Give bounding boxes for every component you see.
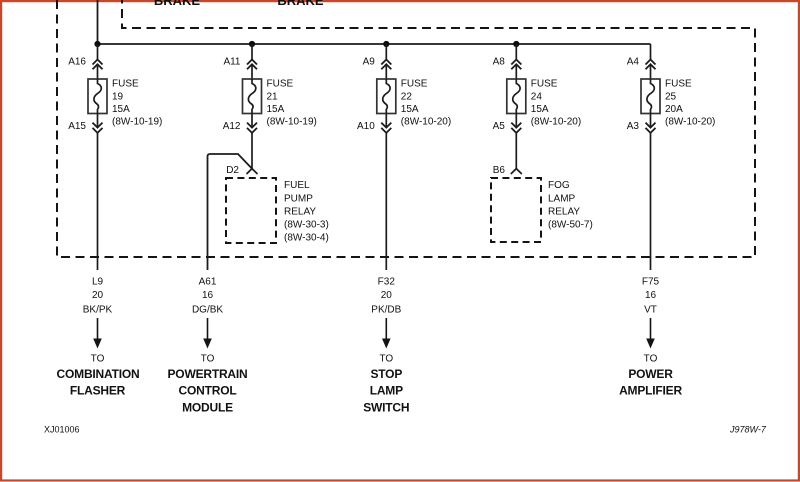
svg-text:F32: F32 (378, 277, 396, 288)
wire: arrow to power amplifier (646, 318, 655, 349)
svg-text:(8W-50-7): (8W-50-7) (548, 220, 593, 231)
svg-text:PUMP: PUMP (284, 193, 313, 204)
wire: connector A15 down to circuit L9 (97, 133, 99, 270)
wire: feed from above into bus node (97, 0, 99, 44)
svg-text:MODULE: MODULE (182, 400, 233, 414)
wire: horizontal bus (98, 43, 651, 45)
connector A5 (double chevron down) (511, 123, 521, 133)
svg-text:CONTROL: CONTROL (179, 384, 237, 398)
svg-text:AMPLIFIER: AMPLIFIER (619, 384, 682, 398)
svg-text:(8W-30-4): (8W-30-4) (284, 233, 329, 244)
svg-text:25: 25 (665, 91, 677, 102)
svg-text:F75: F75 (642, 277, 660, 288)
svg-text:15A: 15A (267, 104, 285, 115)
svg-text:A12: A12 (223, 121, 241, 132)
svg-text:TO: TO (644, 354, 658, 365)
terminal D2 (caret at relay) (247, 169, 258, 174)
wire: fuse 19 to connector A15 (97, 114, 99, 128)
value label FUSE 19 15A (8W-10-19) (112, 79, 162, 128)
svg-text:STOP: STOP (370, 367, 402, 381)
svg-text:22: 22 (401, 91, 413, 102)
svg-text:BRAKE: BRAKE (277, 0, 324, 8)
svg-text:LAMP: LAMP (370, 384, 403, 398)
net label F32 20 PK/DB (371, 277, 401, 316)
wire: fuse 25 to connector A3 (650, 114, 652, 128)
svg-text:J978W-7: J978W-7 (729, 425, 767, 435)
svg-text:POWERTRAIN: POWERTRAIN (168, 367, 248, 381)
svg-text:20: 20 (92, 290, 104, 301)
svg-text:FUEL: FUEL (284, 180, 310, 191)
svg-text:19: 19 (112, 91, 124, 102)
svg-text:TO: TO (201, 354, 215, 365)
dashed boundary: junction block / power distribution center (57, 0, 755, 257)
wire: connector A9 to fuse 22 (385, 64, 387, 79)
svg-text:TO: TO (91, 354, 105, 365)
wire: fuse 22 to connector A10 (385, 114, 387, 128)
svg-text:16: 16 (645, 290, 657, 301)
svg-text:(8W-10-20): (8W-10-20) (665, 117, 715, 128)
value label FUSE 25 20A (8W-10-20) (665, 79, 715, 128)
wire: bus to connector A8 (515, 44, 517, 60)
svg-text:COMBINATION: COMBINATION (57, 367, 140, 381)
net label L9 20 BK/PK (83, 277, 113, 316)
terminal B6 (caret at relay) (511, 169, 522, 174)
relay K1 FUEL PUMP RELAY (dashed outline) (226, 178, 276, 243)
label FUEL PUMP RELAY (8W-30-3) (8W-30-4) (284, 180, 329, 243)
wire: tap from D2 to PCM feed (diagonal, horizontal, down) (208, 154, 253, 270)
svg-text:A4: A4 (627, 57, 640, 68)
svg-text:A61: A61 (199, 277, 217, 288)
svg-text:FUSE: FUSE (531, 79, 558, 90)
net label A61 16 DG/BK (192, 277, 223, 316)
fuse F25 (641, 79, 660, 114)
label TO POWERTRAIN CONTROL MODULE (168, 354, 248, 415)
svg-text:20: 20 (381, 290, 393, 301)
wire: connector A11 to fuse 21 (251, 64, 253, 79)
connector A9 (double chevron up) (381, 60, 391, 70)
svg-text:A10: A10 (357, 121, 375, 132)
connector A12 (double chevron down) (247, 123, 257, 133)
label TO POWER AMPLIFIER (619, 354, 682, 398)
node at fuse 19 tap (94, 41, 100, 47)
wire: connector A10 down to circuit F32 (385, 133, 387, 270)
svg-text:FUSE: FUSE (665, 79, 692, 90)
svg-text:15A: 15A (531, 104, 549, 115)
wire: connector A4 to fuse 25 (650, 64, 652, 79)
wire: connector A16 to fuse 19 (97, 64, 99, 79)
svg-text:FUSE: FUSE (401, 79, 428, 90)
node at fuse 24 tap (513, 41, 519, 47)
net label F75 16 VT (642, 277, 660, 316)
svg-text:A16: A16 (68, 57, 86, 68)
svg-text:VT: VT (644, 305, 657, 316)
label FOG LAMP RELAY (8W-50-7) (548, 180, 593, 230)
fuse F22 (377, 79, 396, 114)
svg-text:PK/DB: PK/DB (371, 305, 401, 316)
svg-text:A8: A8 (493, 57, 506, 68)
svg-text:DG/BK: DG/BK (192, 305, 223, 316)
relay K2 FOG LAMP RELAY (dashed outline) (491, 178, 541, 242)
svg-text:POWER: POWER (628, 367, 673, 381)
connector A16 (double chevron up) (93, 60, 103, 70)
svg-text:A9: A9 (363, 57, 376, 68)
wire: connector A5 to relay terminal B6 (515, 133, 517, 169)
svg-text:B6: B6 (493, 165, 506, 176)
svg-text:RELAY: RELAY (284, 206, 316, 217)
svg-text:20A: 20A (665, 104, 683, 115)
label TO COMBINATION FLASHER (57, 354, 140, 398)
wire: arrow to stop lamp switch (382, 318, 391, 349)
wire: bus to connector A11 (251, 44, 253, 60)
wire: fuse 24 to connector A5 (515, 114, 517, 128)
connector A11 (double chevron up) (247, 60, 257, 70)
wire: connector A8 to fuse 24 (515, 64, 517, 79)
connector A15 (double chevron down) (93, 123, 103, 133)
svg-text:A5: A5 (493, 121, 506, 132)
label TO STOP LAMP SWITCH (363, 354, 409, 415)
svg-text:A3: A3 (627, 121, 640, 132)
value label FUSE 22 15A (8W-10-20) (401, 79, 451, 128)
svg-text:21: 21 (267, 91, 279, 102)
wire: arrow to powertrain control module (203, 318, 212, 349)
value label FUSE 24 15A (8W-10-20) (531, 79, 581, 128)
svg-text:FOG: FOG (548, 180, 570, 191)
fuse F24 (507, 79, 526, 114)
svg-text:16: 16 (202, 290, 214, 301)
wire: bus to connector A9 (385, 44, 387, 60)
wire: arrow to combination flasher (93, 318, 102, 349)
node at fuse 22 tap (383, 41, 389, 47)
svg-text:L9: L9 (92, 277, 104, 288)
svg-text:TO: TO (379, 354, 393, 365)
svg-text:(8W-10-19): (8W-10-19) (112, 117, 162, 128)
svg-text:24: 24 (531, 91, 543, 102)
svg-text:(8W-10-20): (8W-10-20) (401, 117, 451, 128)
svg-text:A11: A11 (223, 57, 240, 68)
value label FUSE 21 15A (8W-10-19) (267, 79, 317, 128)
svg-text:FUSE: FUSE (112, 79, 139, 90)
svg-text:FLASHER: FLASHER (70, 384, 126, 398)
connector A4 (double chevron up) (646, 60, 656, 70)
fuse F21 (243, 79, 262, 114)
svg-text:(8W-10-19): (8W-10-19) (267, 117, 317, 128)
svg-text:SWITCH: SWITCH (363, 400, 409, 414)
wire: fuse 21 to connector A12 (251, 114, 253, 128)
svg-text:RELAY: RELAY (548, 206, 580, 217)
svg-text:15A: 15A (112, 104, 130, 115)
connector A3 (double chevron down) (646, 123, 656, 133)
svg-text:BRAKE: BRAKE (154, 0, 201, 8)
fuse F19 (88, 79, 107, 114)
svg-text:15A: 15A (401, 104, 419, 115)
svg-text:(8W-30-3): (8W-30-3) (284, 220, 329, 231)
wire: connector A12 to relay terminal D2 (251, 133, 253, 169)
wire: bus corner down to connector A4 (650, 44, 652, 60)
connector A10 (double chevron down) (381, 123, 391, 133)
svg-text:(8W-10-20): (8W-10-20) (531, 117, 581, 128)
svg-text:LAMP: LAMP (548, 193, 576, 204)
svg-text:BK/PK: BK/PK (83, 305, 113, 316)
svg-text:XJ01006: XJ01006 (44, 425, 80, 435)
wire: connector A3 down to circuit F75 (650, 133, 652, 270)
node at fuse 21 tap (249, 41, 255, 47)
svg-text:FUSE: FUSE (267, 79, 294, 90)
connector A8 (double chevron up) (511, 60, 521, 70)
svg-text:A15: A15 (68, 121, 86, 132)
wire: bus to connector A16 (97, 44, 99, 60)
svg-text:D2: D2 (226, 165, 239, 176)
